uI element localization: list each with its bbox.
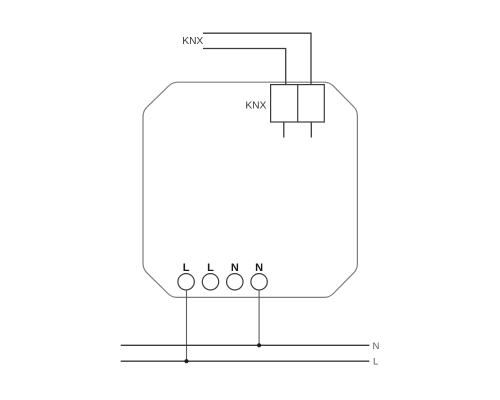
wire KNX - (lower bus wire) <box>203 49 286 85</box>
svg-text:N: N <box>255 262 263 274</box>
KNX connector divider <box>297 85 299 122</box>
svg-text:KNX: KNX <box>182 36 203 47</box>
terminal L2 <box>202 274 218 290</box>
wire stub below connector left <box>283 122 285 138</box>
KNX bus connector U1 (two-pole terminal block) <box>271 85 325 122</box>
mains line L <box>121 360 370 362</box>
wire KNX + (upper bus wire) <box>203 33 311 84</box>
device outline (flush-mount actuator body) <box>143 82 357 297</box>
svg-text:L: L <box>183 262 190 274</box>
junction dot on N line <box>257 343 261 347</box>
terminal L1 <box>178 274 194 290</box>
wire N terminal to N mains line <box>258 290 260 345</box>
wire stub below connector right <box>310 122 312 138</box>
terminal N1 <box>227 274 243 290</box>
svg-text:N: N <box>231 262 239 274</box>
svg-text:KNX: KNX <box>245 101 266 112</box>
wire L terminal to L mains line <box>186 290 188 361</box>
mains line N <box>121 344 370 346</box>
svg-text:N: N <box>373 341 380 352</box>
svg-text:L: L <box>373 357 378 368</box>
terminal N2 <box>251 274 267 290</box>
junction dot on L line <box>184 359 188 363</box>
svg-text:L: L <box>207 262 214 274</box>
